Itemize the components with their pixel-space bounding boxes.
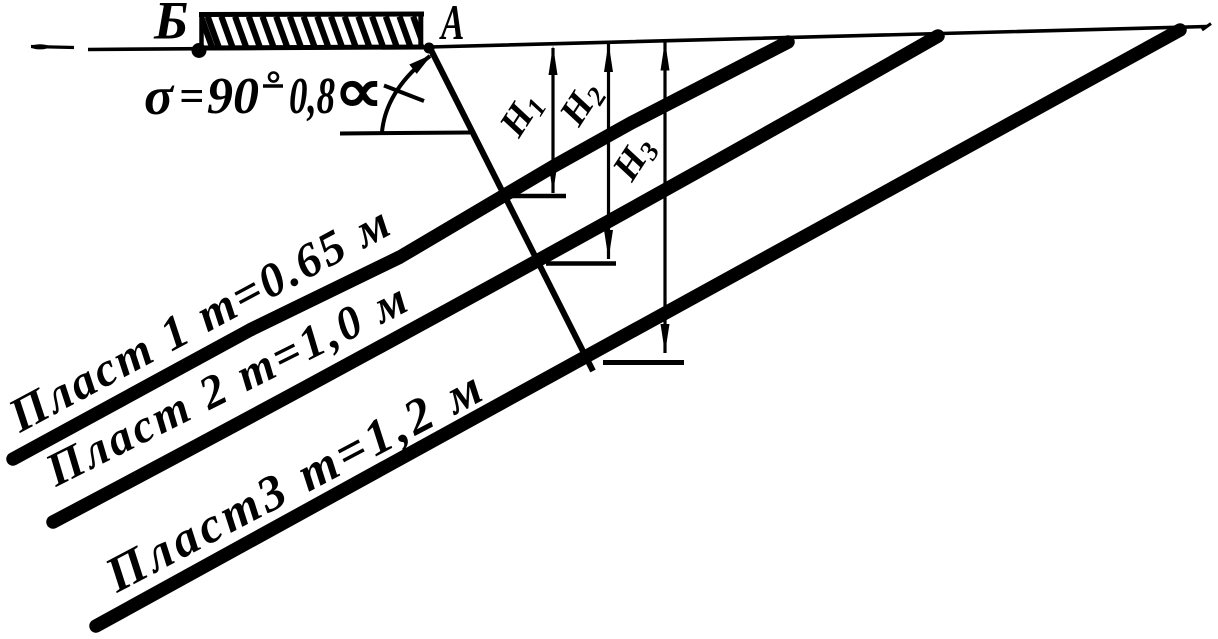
formula degree circle (269, 73, 278, 82)
dimension H2 tick (546, 261, 616, 266)
block border: top edge (199, 12, 424, 18)
formula minus (263, 84, 283, 88)
angle tick slash (384, 86, 424, 102)
angle arc (382, 56, 430, 132)
svg-text:90: 90 (207, 68, 259, 125)
svg-text:Н2: Н2 (551, 74, 613, 135)
ground line right end tick (1202, 24, 1211, 31)
angle baseline (340, 133, 470, 134)
hatched excavation block Б-A (201, 17, 424, 48)
svg-text:А: А (439, 0, 465, 51)
dimension H2 line (607, 43, 610, 259)
point Б dot (192, 43, 207, 58)
point A junction blob (424, 43, 435, 54)
ground surface line (88, 27, 1207, 50)
svg-text:∝: ∝ (334, 57, 384, 126)
block border: right edge (418, 12, 423, 48)
svg-text:Б: Б (153, 0, 188, 51)
dimension H1 tick (507, 194, 566, 199)
svg-text:Н1: Н1 (491, 85, 553, 146)
svg-text:σ: σ (144, 66, 175, 126)
borehole line from A (430, 47, 594, 371)
seam 2 band (Пласт 2) (53, 36, 938, 522)
block border: bottom edge (199, 47, 424, 48)
dimension H3 line (663, 42, 666, 354)
dimension H3 tick (603, 360, 684, 365)
svg-text:0,8: 0,8 (289, 67, 335, 125)
seam 1 band (Пласт 1) (13, 42, 788, 459)
dimension H1 line (551, 48, 554, 193)
block border: left edge (199, 12, 204, 49)
ground line left dash (31, 47, 74, 48)
angle arc arrowhead (409, 55, 432, 74)
svg-text:=: = (179, 72, 204, 121)
